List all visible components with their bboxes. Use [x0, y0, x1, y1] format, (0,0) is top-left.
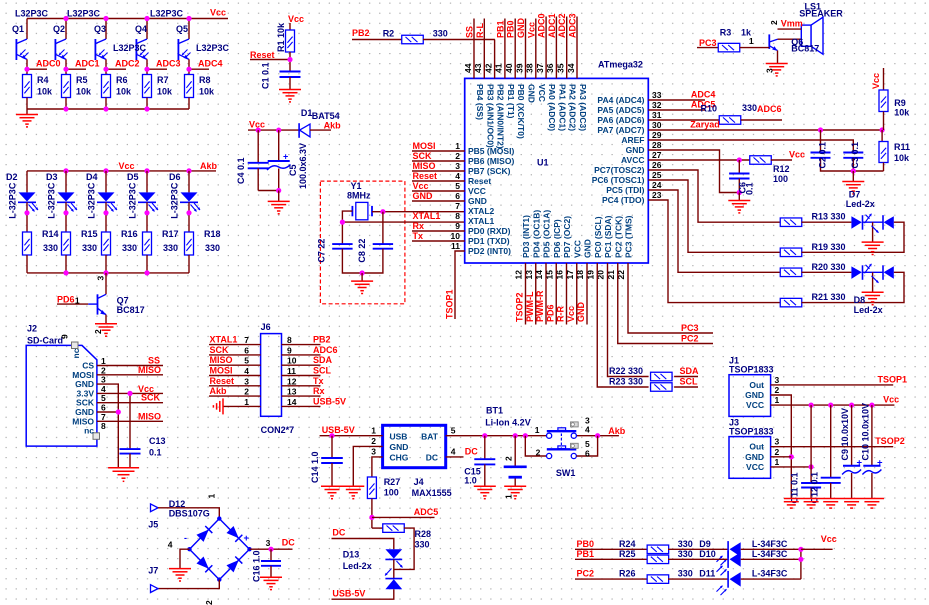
svg-text:D10: D10 — [699, 549, 716, 559]
svg-text:330: 330 — [678, 549, 693, 559]
svg-text:1.0: 1.0 — [464, 476, 477, 486]
svg-text:Led-2x: Led-2x — [343, 561, 372, 571]
svg-text:L32P3C: L32P3C — [113, 43, 147, 53]
svg-text:Vmm: Vmm — [781, 19, 803, 29]
svg-text:ADC3: ADC3 — [568, 13, 578, 38]
svg-text:R16: R16 — [121, 229, 138, 239]
svg-text:PC2 (TCK): PC2 (TCK) — [613, 216, 623, 258]
svg-text:PB2: PB2 — [313, 335, 331, 345]
svg-text:D7: D7 — [849, 190, 861, 200]
svg-text:Li-Ion 4.2V: Li-Ion 4.2V — [485, 418, 531, 428]
svg-text:4: 4 — [451, 447, 456, 457]
svg-text:Q5: Q5 — [176, 24, 188, 34]
svg-text:Akb: Akb — [200, 161, 218, 171]
svg-text:GND: GND — [516, 18, 526, 39]
svg-text:Reset: Reset — [250, 50, 275, 60]
svg-text:C3 0.1: C3 0.1 — [850, 142, 860, 169]
svg-text:BC817: BC817 — [117, 305, 145, 315]
svg-text:28: 28 — [652, 140, 662, 150]
svg-text:3: 3 — [455, 161, 460, 171]
svg-text:VCC: VCC — [468, 186, 486, 196]
svg-text:2: 2 — [769, 20, 779, 25]
svg-text:L32P3C: L32P3C — [150, 9, 184, 19]
svg-text:Out: Out — [749, 442, 764, 452]
svg-text:PA6 (ADC6): PA6 (ADC6) — [597, 115, 644, 125]
svg-text:SCK: SCK — [141, 393, 161, 403]
svg-text:R3: R3 — [720, 28, 732, 38]
svg-text:L-34F3C: L-34F3C — [752, 549, 788, 559]
svg-text:PB6 (MISO): PB6 (MISO) — [468, 156, 514, 166]
svg-text:R21 330: R21 330 — [812, 292, 846, 302]
svg-text:XTAL1: XTAL1 — [210, 335, 238, 345]
svg-text:100: 100 — [384, 488, 399, 498]
svg-text:R9: R9 — [894, 98, 906, 108]
svg-text:MISO: MISO — [138, 365, 161, 375]
svg-text:PD6: PD6 — [545, 304, 555, 322]
svg-text:12: 12 — [514, 270, 524, 280]
svg-text:330: 330 — [415, 540, 430, 550]
svg-text:Vcc: Vcc — [210, 8, 226, 18]
svg-text:PD0 (RXD): PD0 (RXD) — [468, 226, 511, 236]
svg-text:2: 2 — [504, 456, 514, 461]
svg-text:R2: R2 — [383, 29, 395, 39]
svg-text:+: + — [244, 533, 250, 544]
svg-text:PD1 (TXD): PD1 (TXD) — [468, 236, 510, 246]
svg-text:J5: J5 — [148, 520, 158, 530]
svg-text:L32P3C: L32P3C — [67, 9, 101, 19]
svg-text:C16 1.0: C16 1.0 — [252, 550, 262, 582]
svg-text:D11: D11 — [699, 569, 715, 579]
svg-text:PD7 (OC2): PD7 (OC2) — [562, 216, 572, 258]
svg-text:R27: R27 — [384, 477, 401, 487]
svg-text:C13: C13 — [149, 436, 166, 446]
svg-text:330: 330 — [678, 539, 693, 549]
svg-text:10: 10 — [287, 356, 297, 366]
svg-text:USB-5V: USB-5V — [322, 425, 355, 435]
svg-text:PC3: PC3 — [699, 38, 717, 48]
svg-text:R7: R7 — [157, 75, 169, 85]
svg-text:SCL: SCL — [680, 377, 699, 387]
svg-text:14: 14 — [534, 270, 544, 280]
svg-text:MISO: MISO — [210, 355, 233, 365]
svg-text:C7 22: C7 22 — [317, 239, 327, 263]
svg-text:R1 10k: R1 10k — [276, 22, 286, 52]
svg-text:100.0x6.3V: 100.0x6.3V — [298, 143, 308, 189]
svg-text:R12: R12 — [773, 164, 790, 174]
svg-text:1: 1 — [371, 426, 376, 436]
svg-text:PC1 (SDA): PC1 (SDA) — [603, 215, 613, 258]
svg-text:14: 14 — [287, 397, 297, 407]
svg-text:10k: 10k — [157, 87, 173, 97]
svg-text:4: 4 — [455, 171, 460, 181]
svg-text:27: 27 — [652, 150, 662, 160]
svg-text:XTAL1: XTAL1 — [413, 211, 441, 221]
svg-text:R18: R18 — [204, 229, 221, 239]
svg-text:330: 330 — [678, 569, 693, 579]
svg-text:29: 29 — [652, 130, 662, 140]
svg-text:9: 9 — [455, 221, 460, 231]
svg-text:USB: USB — [390, 432, 408, 442]
svg-text:TSOP2: TSOP2 — [875, 436, 905, 446]
svg-text:ATmega32: ATmega32 — [598, 60, 643, 70]
svg-text:R20 330: R20 330 — [812, 262, 846, 272]
svg-text:AVCC: AVCC — [621, 155, 644, 165]
svg-text:SD-Card: SD-Card — [27, 336, 63, 346]
svg-text:C8 22: C8 22 — [357, 239, 367, 263]
svg-text:8: 8 — [455, 211, 460, 221]
svg-text:2: 2 — [93, 329, 103, 334]
svg-text:26: 26 — [652, 160, 662, 170]
svg-text:GND: GND — [413, 191, 434, 201]
svg-text:R17: R17 — [162, 229, 179, 239]
svg-text:USB-5V: USB-5V — [313, 396, 346, 406]
svg-text:Akb: Akb — [608, 426, 626, 436]
svg-text:9: 9 — [287, 345, 292, 355]
svg-text:33: 33 — [652, 90, 662, 100]
svg-text:R24: R24 — [619, 539, 636, 549]
svg-text:Q4: Q4 — [135, 24, 147, 34]
svg-text:+: + — [877, 457, 883, 468]
svg-text:330: 330 — [433, 29, 448, 39]
svg-text:ADC6: ADC6 — [313, 345, 338, 355]
svg-text:CHG: CHG — [390, 453, 409, 463]
svg-text:PA2 (ADC2): PA2 (ADC2) — [568, 84, 578, 131]
svg-text:nc: nc — [71, 348, 81, 358]
svg-text:13: 13 — [524, 270, 534, 280]
svg-text:Q1: Q1 — [12, 24, 24, 34]
svg-text:PC6 (TOSC1): PC6 (TOSC1) — [592, 175, 645, 185]
svg-text:D2: D2 — [6, 172, 18, 182]
svg-text:PB3 (AIN1/OC0): PB3 (AIN1/OC0) — [485, 84, 495, 148]
svg-text:ADC1: ADC1 — [547, 13, 557, 38]
svg-text:PD5 (OC1A): PD5 (OC1A) — [542, 210, 552, 258]
svg-text:3: 3 — [765, 68, 775, 73]
svg-text:330: 330 — [82, 243, 97, 253]
svg-text:7: 7 — [244, 335, 249, 345]
svg-text:330: 330 — [742, 103, 757, 113]
svg-text:Vcc: Vcc — [526, 22, 536, 38]
svg-text:PC7(TOSC2): PC7(TOSC2) — [594, 165, 645, 175]
svg-text:Out: Out — [749, 380, 764, 390]
svg-text:J4: J4 — [414, 477, 424, 487]
svg-text:GND: GND — [745, 390, 764, 400]
svg-text:Vcc: Vcc — [883, 395, 899, 405]
svg-text:PA4 (ADC4): PA4 (ADC4) — [597, 95, 644, 105]
svg-text:5: 5 — [585, 439, 590, 449]
svg-text:10k: 10k — [199, 87, 215, 97]
svg-text:L-34F3C: L-34F3C — [752, 569, 788, 579]
svg-text:SCL: SCL — [313, 366, 332, 376]
svg-text:ADC0: ADC0 — [537, 13, 547, 38]
svg-text:PB2 (AIN0/INT2): PB2 (AIN0/INT2) — [496, 84, 506, 149]
svg-text:C4 0.1: C4 0.1 — [236, 157, 246, 184]
svg-text:39: 39 — [514, 63, 524, 73]
svg-text:R28: R28 — [415, 529, 432, 539]
svg-text:3: 3 — [371, 447, 376, 457]
svg-text:SW1: SW1 — [556, 468, 576, 478]
svg-text:J7: J7 — [148, 566, 158, 576]
svg-text:Vcc: Vcc — [821, 534, 837, 544]
svg-text:L32P3C: L32P3C — [15, 9, 49, 19]
svg-text:GND: GND — [583, 239, 593, 258]
svg-text:D12: D12 — [169, 499, 186, 509]
svg-text:34: 34 — [566, 63, 576, 73]
svg-text:J6: J6 — [261, 322, 271, 332]
svg-text:Q2: Q2 — [53, 24, 65, 34]
svg-text:GND: GND — [468, 196, 487, 206]
svg-text:2: 2 — [455, 151, 460, 161]
svg-text:Rx: Rx — [313, 386, 325, 396]
svg-text:TSOP1833: TSOP1833 — [729, 365, 774, 375]
svg-text:2: 2 — [244, 387, 249, 397]
svg-text:D3: D3 — [46, 172, 58, 182]
svg-text:SDA: SDA — [680, 366, 700, 376]
svg-text:GND: GND — [745, 452, 764, 462]
svg-text:R8: R8 — [199, 75, 211, 85]
svg-text:GND: GND — [390, 442, 409, 452]
svg-text:43: 43 — [473, 63, 483, 73]
svg-text:Reset: Reset — [413, 171, 438, 181]
svg-text:L-32P3C: L-32P3C — [87, 182, 97, 219]
svg-text:10k: 10k — [76, 87, 92, 97]
svg-text:1: 1 — [775, 395, 780, 405]
svg-text:C14 1.0: C14 1.0 — [310, 451, 320, 483]
svg-text:Vcc: Vcc — [288, 14, 304, 24]
svg-text:C10 10.0x10V: C10 10.0x10V — [860, 403, 870, 461]
svg-text:VCC: VCC — [537, 84, 547, 102]
svg-text:11: 11 — [451, 241, 460, 251]
svg-text:16: 16 — [555, 270, 565, 280]
svg-text:J2: J2 — [27, 324, 37, 334]
svg-text:3: 3 — [244, 376, 249, 386]
svg-text:1: 1 — [75, 296, 80, 306]
svg-text:Q3: Q3 — [94, 24, 106, 34]
svg-text:13: 13 — [287, 387, 297, 397]
svg-text:330: 330 — [122, 243, 137, 253]
svg-text:10k: 10k — [894, 108, 910, 118]
svg-text:C1 0.1: C1 0.1 — [261, 62, 271, 89]
svg-text:10k: 10k — [37, 87, 53, 97]
svg-text:Reset: Reset — [468, 176, 491, 186]
svg-text:PC2: PC2 — [681, 334, 699, 344]
svg-text:35: 35 — [556, 63, 566, 73]
svg-text:C5: C5 — [288, 164, 298, 176]
svg-text:4: 4 — [244, 366, 249, 376]
svg-text:VCC: VCC — [746, 462, 764, 472]
svg-text:GND: GND — [626, 145, 645, 155]
svg-text:VCC: VCC — [746, 400, 764, 410]
svg-text:0.1: 0.1 — [745, 182, 755, 195]
svg-text:PA0 (ADC0): PA0 (ADC0) — [547, 84, 557, 131]
svg-text:23: 23 — [652, 190, 662, 200]
svg-text:GND: GND — [527, 84, 537, 103]
svg-text:R4: R4 — [37, 75, 49, 85]
svg-text:3: 3 — [775, 437, 780, 447]
svg-text:D5: D5 — [127, 172, 139, 182]
svg-text:30: 30 — [652, 120, 662, 130]
svg-text:PWM-L: PWM-L — [525, 291, 535, 322]
svg-text:3: 3 — [266, 538, 271, 548]
svg-text:8: 8 — [287, 335, 292, 345]
svg-text:100: 100 — [773, 174, 788, 184]
svg-text:Tx: Tx — [413, 231, 424, 241]
svg-text:5: 5 — [455, 181, 460, 191]
svg-text:ADC2: ADC2 — [557, 13, 567, 38]
svg-text:L-32P3C: L-32P3C — [170, 182, 180, 219]
svg-text:ADC4: ADC4 — [198, 59, 223, 69]
svg-text:R6: R6 — [116, 75, 128, 85]
svg-text:C2 0.1: C2 0.1 — [818, 142, 828, 169]
svg-text:3: 3 — [96, 276, 106, 281]
svg-text:TSOP1833: TSOP1833 — [729, 427, 774, 437]
svg-text:5: 5 — [244, 356, 249, 366]
svg-text:DC: DC — [332, 528, 345, 538]
svg-text:Y1: Y1 — [351, 181, 362, 191]
svg-text:L-32P3C: L-32P3C — [47, 182, 57, 219]
svg-text:Led-2x: Led-2x — [846, 199, 875, 209]
svg-text:MOSI: MOSI — [413, 141, 436, 151]
svg-text:Vcc: Vcc — [871, 73, 881, 89]
svg-text:Akb: Akb — [324, 121, 342, 131]
svg-text:R13 330: R13 330 — [812, 212, 846, 222]
svg-text:40: 40 — [504, 63, 514, 73]
svg-text:R26: R26 — [619, 569, 636, 579]
svg-text:37: 37 — [535, 63, 545, 73]
svg-text:1: 1 — [535, 425, 540, 435]
svg-text:DC: DC — [282, 538, 295, 548]
svg-text:ADC0: ADC0 — [36, 59, 61, 69]
svg-text:PD6: PD6 — [57, 295, 75, 305]
svg-text:PA1 (ADC1): PA1 (ADC1) — [557, 84, 567, 131]
svg-text:4: 4 — [585, 425, 590, 435]
svg-text:-: - — [184, 533, 187, 543]
svg-text:24: 24 — [652, 180, 662, 190]
svg-text:31: 31 — [652, 110, 662, 120]
svg-text:3: 3 — [775, 375, 780, 385]
svg-text:D4: D4 — [86, 172, 98, 182]
svg-text:10k: 10k — [116, 87, 132, 97]
svg-text:DC: DC — [465, 447, 478, 457]
svg-text:PWM-R: PWM-R — [535, 290, 545, 322]
svg-text:L-34F3C: L-34F3C — [752, 539, 788, 549]
svg-text:2: 2 — [371, 436, 376, 446]
svg-text:XTAL2: XTAL2 — [468, 206, 495, 216]
svg-text:SS: SS — [465, 26, 475, 38]
svg-text:PC3: PC3 — [681, 323, 699, 333]
svg-text:D9: D9 — [699, 539, 711, 549]
svg-text:2: 2 — [775, 447, 780, 457]
svg-text:PB1 (T1): PB1 (T1) — [506, 84, 516, 119]
svg-text:Vcc: Vcc — [566, 306, 576, 322]
svg-text:12: 12 — [287, 376, 297, 386]
svg-text:ADC5: ADC5 — [414, 507, 439, 517]
svg-text:SCK: SCK — [210, 345, 230, 355]
svg-text:19: 19 — [585, 270, 595, 280]
svg-text:TSOP2: TSOP2 — [515, 292, 525, 322]
svg-text:R14: R14 — [42, 229, 59, 239]
svg-text:8: 8 — [101, 421, 106, 431]
svg-text:4: 4 — [168, 540, 173, 550]
svg-text:6: 6 — [585, 449, 590, 459]
svg-text:PB0: PB0 — [506, 20, 516, 38]
svg-text:PB1: PB1 — [577, 549, 595, 559]
svg-text:32: 32 — [652, 100, 662, 110]
svg-text:1: 1 — [749, 36, 754, 46]
svg-text:9: 9 — [60, 334, 70, 339]
svg-text:PA5 (ADC5): PA5 (ADC5) — [597, 105, 644, 115]
svg-text:Zaryad: Zaryad — [690, 119, 720, 129]
svg-text:PB4 (SS): PB4 (SS) — [475, 84, 485, 120]
svg-text:Led-2x: Led-2x — [854, 305, 883, 315]
svg-text:6: 6 — [455, 191, 460, 201]
svg-text:1: 1 — [244, 397, 249, 407]
svg-text:ADC3: ADC3 — [156, 59, 181, 69]
svg-text:PB7 (SCK): PB7 (SCK) — [468, 166, 511, 176]
svg-text:L-32P3C: L-32P3C — [128, 182, 138, 219]
svg-text:Tx: Tx — [313, 376, 324, 386]
svg-text:1: 1 — [207, 494, 217, 499]
svg-text:USB-5V: USB-5V — [332, 589, 365, 599]
svg-text:PD3 (INT1): PD3 (INT1) — [521, 215, 531, 258]
svg-text:36: 36 — [545, 63, 555, 73]
svg-text:R10: R10 — [701, 104, 718, 114]
svg-text:PB2: PB2 — [352, 28, 370, 38]
svg-text:PA3 (ADC3): PA3 (ADC3) — [578, 84, 588, 131]
svg-text:0.1: 0.1 — [149, 447, 162, 457]
svg-text:R-R: R-R — [556, 306, 566, 322]
svg-text:R11: R11 — [894, 142, 910, 152]
svg-text:PC5 (TDI): PC5 (TDI) — [606, 185, 644, 195]
svg-text:41: 41 — [494, 63, 504, 73]
svg-text:D13: D13 — [343, 550, 360, 560]
svg-text:Q7: Q7 — [117, 296, 129, 306]
svg-text:R23 330: R23 330 — [609, 377, 643, 387]
svg-text:R5: R5 — [76, 75, 88, 85]
svg-text:SPEAKER: SPEAKER — [799, 9, 843, 19]
svg-text:PC2: PC2 — [577, 569, 595, 579]
svg-text:Vcc: Vcc — [789, 150, 805, 160]
svg-text:SCK: SCK — [413, 151, 433, 161]
svg-text:Reset: Reset — [210, 376, 235, 386]
svg-text:nc: nc — [84, 426, 94, 436]
svg-text:Akb: Akb — [210, 386, 228, 396]
svg-text:BC817: BC817 — [791, 44, 819, 54]
svg-text:PB1: PB1 — [495, 20, 505, 38]
svg-text:PC0 (SCL): PC0 (SCL) — [593, 216, 603, 258]
svg-text:5: 5 — [451, 426, 456, 436]
svg-text:15: 15 — [544, 270, 554, 280]
svg-text:TSOP1: TSOP1 — [445, 289, 455, 319]
svg-text:ADC6: ADC6 — [757, 104, 782, 114]
svg-text:44: 44 — [463, 63, 473, 73]
svg-text:10: 10 — [451, 231, 461, 241]
svg-text:C9 10.0x10V: C9 10.0x10V — [840, 408, 850, 461]
svg-text:PB0 (XCK/T0): PB0 (XCK/T0) — [516, 84, 526, 139]
svg-text:PC4 (TDO): PC4 (TDO) — [602, 195, 645, 205]
svg-text:330: 330 — [205, 243, 220, 253]
svg-text:PA7 (ADC7): PA7 (ADC7) — [597, 125, 644, 135]
svg-text:D8: D8 — [854, 295, 866, 305]
svg-text:ADC4: ADC4 — [691, 90, 716, 100]
svg-text:11: 11 — [287, 366, 296, 376]
svg-text:330: 330 — [43, 243, 58, 253]
svg-text:Vcc: Vcc — [119, 161, 135, 171]
svg-text:2: 2 — [204, 600, 214, 605]
svg-text:D6: D6 — [169, 172, 181, 182]
svg-text:XTAL1: XTAL1 — [468, 216, 495, 226]
svg-text:PD4 (OC1B): PD4 (OC1B) — [531, 210, 541, 258]
svg-text:R19 330: R19 330 — [812, 242, 846, 252]
